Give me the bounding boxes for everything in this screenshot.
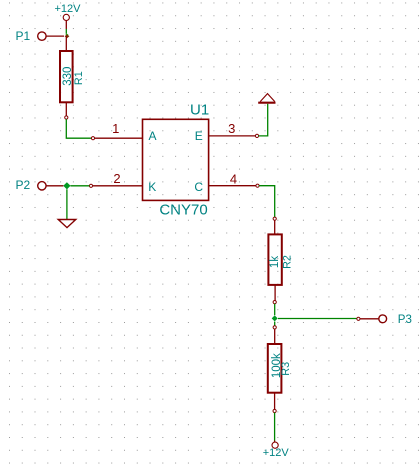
wire U1 pin 3 to power arrow: [259, 104, 268, 136]
R2 pin 2 (bottom): [273, 285, 276, 304]
op-coupler U1 CNY70 body: [143, 102, 210, 219]
wire R2 to node C: [274, 304, 276, 316]
svg-text:K: K: [148, 180, 156, 194]
svg-text:P3: P3: [398, 314, 412, 326]
svg-text:+12V: +12V: [55, 3, 82, 15]
svg-text:2: 2: [113, 171, 120, 186]
U1 pin 2: [89, 171, 142, 187]
resistor R3 100k: [268, 344, 292, 393]
svg-text:A: A: [148, 129, 156, 143]
svg-text:1: 1: [112, 121, 119, 136]
wire node B to U1 pin 2: [70, 185, 89, 187]
junction node C: [272, 315, 278, 321]
svg-text:R2: R2: [281, 255, 293, 269]
R1 pin 2 (bottom): [65, 102, 68, 119]
power symbol +12V bottom: [263, 441, 290, 460]
port P1: [16, 29, 65, 43]
R2 pin 1 (top): [273, 217, 276, 234]
ground symbol: [58, 220, 76, 228]
wire node C to R3: [274, 322, 276, 326]
resistor R2 1k: [268, 234, 293, 285]
svg-text:P2: P2: [16, 178, 31, 192]
wire node C to P3: [278, 318, 357, 320]
svg-text:1k: 1k: [269, 256, 281, 268]
power symbol arrow (VCC) top right: [258, 94, 275, 103]
wire node B to ground: [66, 189, 68, 219]
svg-text:3: 3: [228, 121, 235, 136]
U1 pin 4: [209, 172, 260, 188]
junction node A: [65, 34, 70, 39]
wire U1 pin 4 to R2: [259, 186, 275, 217]
U1 pin 1: [91, 121, 142, 140]
U1 pin 3: [209, 121, 259, 138]
svg-text:R3: R3: [280, 362, 292, 376]
svg-text:P1: P1: [16, 29, 31, 43]
svg-text:CNY70: CNY70: [159, 202, 207, 219]
power symbol +12V top: [55, 3, 82, 29]
svg-text:+12V: +12V: [263, 447, 290, 459]
svg-text:4: 4: [230, 172, 237, 187]
junction node B: [63, 182, 70, 189]
svg-text:U1: U1: [190, 102, 209, 119]
wire +12V to node A: [65, 29, 67, 34]
R3 pin 1 (top): [273, 326, 276, 344]
resistor R1 330: [60, 51, 85, 102]
wire node A to R1 (R1 pin 1): [65, 36, 67, 51]
wire R1 to U1 pin 1: [66, 119, 91, 138]
svg-text:R1: R1: [73, 71, 85, 85]
port P3: [357, 314, 412, 326]
port P2: [16, 178, 64, 192]
svg-text:E: E: [195, 129, 203, 143]
wire R3 to +12V bottom: [274, 413, 276, 441]
R3 pin 2 (bottom): [273, 393, 276, 413]
svg-text:C: C: [194, 180, 203, 194]
